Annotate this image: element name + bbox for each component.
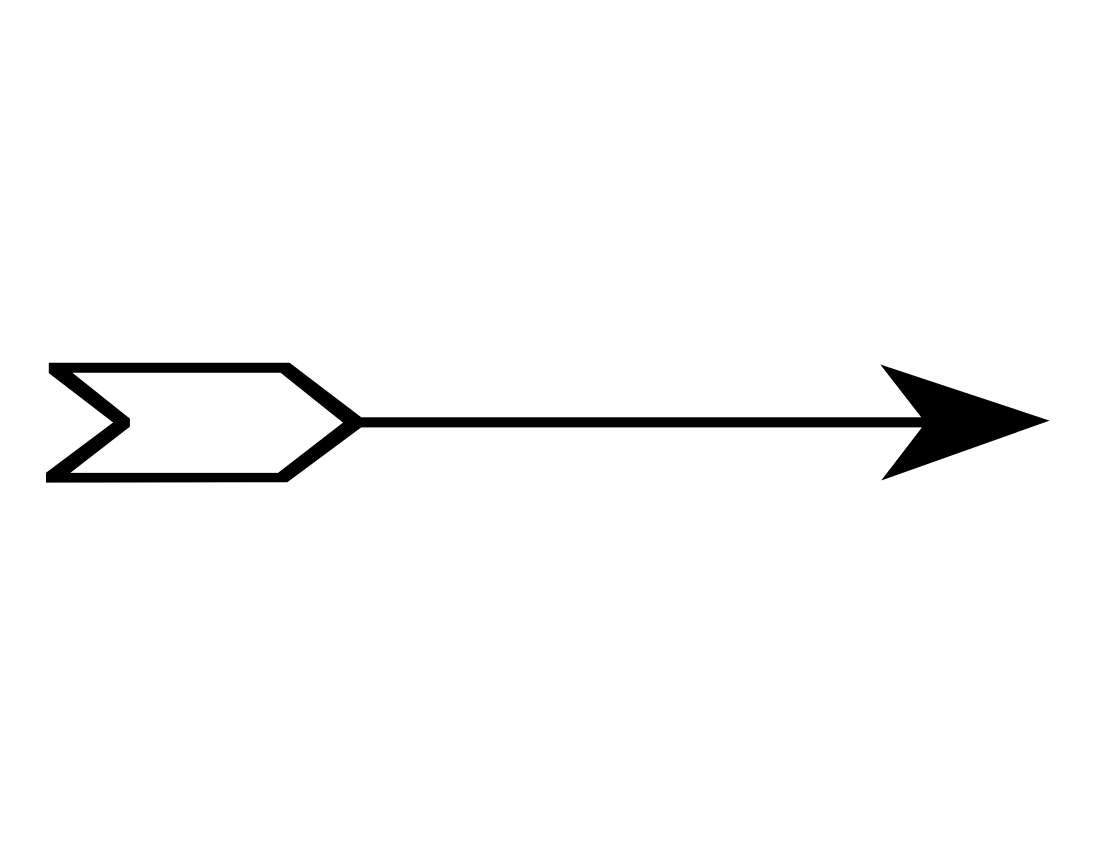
arrow shaft: [352, 417, 928, 427]
arrowhead: [880, 365, 1049, 481]
arrow fletching (outlined chevron): [46, 363, 368, 483]
